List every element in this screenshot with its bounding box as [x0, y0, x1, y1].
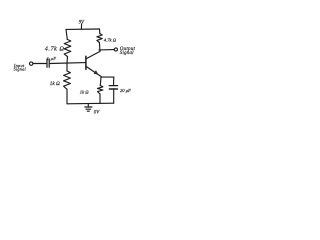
- svg-text:Signal: Signal: [120, 51, 134, 56]
- svg-text:Signal: Signal: [14, 66, 27, 71]
- wire R4 bottom to collector node: [98, 43, 101, 52]
- wire base node to R2: [66, 63, 68, 71]
- ground stub: [87, 104, 89, 107]
- svg-text:9V: 9V: [79, 20, 85, 25]
- svg-text:1k Ω: 1k Ω: [50, 81, 60, 87]
- wire right branch from rail to R4: [99, 29, 101, 34]
- capacitor C1 1uF left plate: [46, 59, 48, 67]
- svg-text:1 μF: 1 μF: [47, 56, 57, 61]
- transistor Q1 emitter lead: [86, 67, 101, 77]
- transistor Q1 base bar: [85, 56, 87, 69]
- resistor R1 4.7k (upper bias): [64, 39, 71, 56]
- resistor R4 4.7k (collector load): [97, 34, 102, 43]
- wire C1 to base of Q1: [50, 62, 86, 65]
- wire R2 bottom to ground rail: [66, 89, 68, 104]
- wire C2 top lead: [113, 77, 115, 86]
- wire input terminal to C1: [33, 63, 46, 65]
- transistor Q1 collector lead: [86, 51, 100, 58]
- resistor R2 1k (lower bias): [64, 71, 71, 89]
- ground bar 2: [86, 108, 91, 110]
- capacitor C2 20uF top plate: [109, 85, 117, 87]
- wire +9V tick: [80, 24, 82, 29]
- wire emitter node horizontal: [102, 76, 114, 78]
- svg-text:0V: 0V: [94, 110, 100, 115]
- wire top +9V rail: [66, 28, 100, 30]
- output terminal circle: [114, 48, 117, 51]
- svg-text:20 μF: 20 μF: [120, 88, 131, 93]
- input terminal circle: [30, 62, 33, 65]
- wire C2 bottom lead: [113, 89, 115, 103]
- resistor R3 1k (emitter): [98, 86, 103, 95]
- wire emitter node down to R3: [99, 77, 102, 85]
- svg-text:4.7k Ω: 4.7k Ω: [104, 37, 117, 42]
- ground bar 1: [85, 106, 92, 108]
- ground bar 3: [87, 110, 89, 112]
- wire bottom 0V rail: [67, 102, 114, 105]
- wire left branch from rail to R1: [66, 29, 67, 39]
- wire output tap: [99, 49, 114, 51]
- capacitor C2 20uF bottom plate: [109, 88, 117, 90]
- svg-text:1k Ω: 1k Ω: [80, 90, 89, 95]
- transistor Q1 emitter arrowhead: [94, 71, 98, 75]
- capacitor C1 1uF right plate: [48, 59, 50, 67]
- svg-text:4.7k Ω: 4.7k Ω: [45, 45, 65, 52]
- wire R3 bottom to ground rail: [99, 94, 101, 103]
- wire R1 bottom to base node: [66, 57, 69, 64]
